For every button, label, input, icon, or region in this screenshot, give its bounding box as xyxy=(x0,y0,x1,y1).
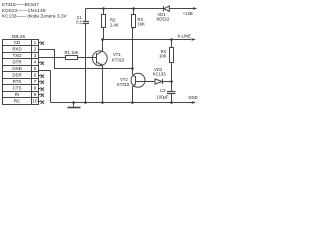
pin DSR 6 xyxy=(12,73,36,78)
svg-text:5: 5 xyxy=(34,66,37,71)
svg-text:RC: RC xyxy=(14,99,20,104)
svg-text:6: 6 xyxy=(34,73,37,78)
no-connect X pin 7 xyxy=(39,81,45,84)
arrow ground bus end xyxy=(192,101,196,104)
pin RTS 7 xyxy=(13,79,37,84)
junction dot C2 bottom xyxy=(170,101,173,104)
label R1 10K xyxy=(65,50,79,55)
svg-text:DB-25: DB-25 xyxy=(12,34,25,39)
svg-text:K-LINE: K-LINE xyxy=(178,34,192,39)
svg-text:GND: GND xyxy=(188,95,197,100)
pin TXD 3 xyxy=(13,53,37,58)
svg-text:DTR: DTR xyxy=(12,60,21,65)
label R3 10K xyxy=(138,17,146,26)
svg-text:RI: RI xyxy=(15,92,19,97)
pin RC 10 xyxy=(14,99,38,104)
svg-text:10: 10 xyxy=(33,99,38,104)
svg-text:2,4K: 2,4K xyxy=(110,23,119,28)
svg-text:KC133—— dioda Zenera 3,3V: KC133—— dioda Zenera 3,3V xyxy=(2,13,68,18)
label K-LINE xyxy=(178,34,192,39)
junction dot ground symbol xyxy=(72,101,75,104)
label VD2 KC133 xyxy=(153,67,166,77)
svg-text:GND: GND xyxy=(12,66,22,71)
pin DTR 4 xyxy=(12,60,36,65)
pin RI 9 xyxy=(15,92,37,97)
wire GND row 5 to ground bus xyxy=(39,71,51,103)
svg-text:10K: 10K xyxy=(159,53,167,58)
svg-text:CD: CD xyxy=(14,40,20,45)
svg-text:3: 3 xyxy=(34,53,37,58)
svg-text:RXD: RXD xyxy=(12,47,21,52)
svg-text:CTS: CTS xyxy=(13,86,22,91)
no-connect X pin 4 xyxy=(39,62,45,65)
svg-text:VT1: VT1 xyxy=(113,52,121,57)
no-connect X pin 8 xyxy=(39,88,45,91)
svg-text:9: 9 xyxy=(34,92,37,97)
label C2 100uF xyxy=(157,88,169,99)
svg-text:TXD: TXD xyxy=(13,53,22,58)
note text line 2 xyxy=(2,8,46,13)
svg-text:7: 7 xyxy=(34,79,37,84)
connector DB-25 table frame xyxy=(3,40,39,105)
label VT2 KT315 xyxy=(117,77,130,87)
label C1 0,1 xyxy=(76,15,82,24)
svg-text:KT315: KT315 xyxy=(117,82,130,87)
resistor R4 xyxy=(170,40,174,82)
connector DB-25 label xyxy=(12,34,25,39)
label +12B xyxy=(183,11,193,16)
svg-text:DSR: DSR xyxy=(12,73,21,78)
label VD1 KD522 xyxy=(157,12,170,21)
svg-text:10K: 10K xyxy=(138,22,146,27)
label R2 2,4K xyxy=(110,18,119,28)
no-connect X pin 6 xyxy=(39,75,45,78)
arrow K-LINE end xyxy=(192,38,196,41)
svg-text:2: 2 xyxy=(34,47,37,52)
wire ground bus bottom xyxy=(51,102,193,104)
note text line 1 xyxy=(2,2,39,7)
junction dot R3 top xyxy=(132,7,135,10)
wire RXD from pin 2 xyxy=(39,50,133,69)
wire K-LINE xyxy=(103,39,192,41)
transistor VT1 xyxy=(92,40,107,103)
svg-text:8: 8 xyxy=(34,86,37,91)
label VT1 KT315 xyxy=(112,52,125,63)
svg-text:KT315——BC547: KT315——BC547 xyxy=(2,2,39,7)
svg-text:C2: C2 xyxy=(160,88,166,93)
junction dot R4 top K-LINE xyxy=(170,38,173,41)
transistor VT2 xyxy=(131,69,155,103)
svg-text:R1 10K: R1 10K xyxy=(65,50,79,55)
svg-text:KT315: KT315 xyxy=(112,57,125,62)
svg-text:100μF: 100μF xyxy=(157,94,169,99)
arrow +12V xyxy=(193,7,197,10)
svg-text:4: 4 xyxy=(34,60,37,65)
svg-text:+12B: +12B xyxy=(183,11,193,16)
resistor R3 xyxy=(132,9,136,69)
junction dot RXD node xyxy=(131,67,134,70)
svg-text:KD522——1N4148: KD522——1N4148 xyxy=(2,8,46,13)
no-connect X pin 9 xyxy=(39,94,45,97)
ground symbol xyxy=(68,103,81,108)
wire TXD from pin 3 to R1 xyxy=(39,57,66,59)
svg-text:1: 1 xyxy=(34,40,37,45)
junction dot VT1 emitter bottom xyxy=(101,101,104,104)
junction dot C1 bottom xyxy=(84,101,87,104)
pin CTS 8 xyxy=(13,86,37,91)
zener diode VD2 xyxy=(155,79,172,84)
note text line 3 xyxy=(2,13,68,18)
capacitor C2 xyxy=(167,82,176,103)
pin GND 5 xyxy=(12,66,37,71)
no-connect X pin 1 xyxy=(39,42,45,45)
resistor R2 xyxy=(102,9,106,40)
pin RXD 2 xyxy=(12,47,36,52)
wire R1 to VT1 base xyxy=(78,57,97,59)
junction dot VD2 R4 node xyxy=(170,80,173,83)
label R4 10K xyxy=(159,49,167,58)
resistor R1 xyxy=(66,56,78,60)
pin CD 1 xyxy=(14,40,37,45)
svg-text:0,1: 0,1 xyxy=(76,19,82,24)
svg-text:KD522: KD522 xyxy=(157,17,170,22)
junction dot VT2 emitter bottom xyxy=(131,101,134,104)
diode VD1 xyxy=(164,6,194,11)
junction dot VT1 collector K-LINE xyxy=(101,38,104,41)
svg-text:KC133: KC133 xyxy=(153,71,166,76)
junction dot R2 top xyxy=(102,7,105,10)
label GND xyxy=(188,95,197,100)
wire +12V rail top xyxy=(86,8,164,10)
no-connect X pin 10 xyxy=(39,101,45,104)
svg-text:RTS: RTS xyxy=(13,79,22,84)
capacitor C1 xyxy=(83,9,90,103)
